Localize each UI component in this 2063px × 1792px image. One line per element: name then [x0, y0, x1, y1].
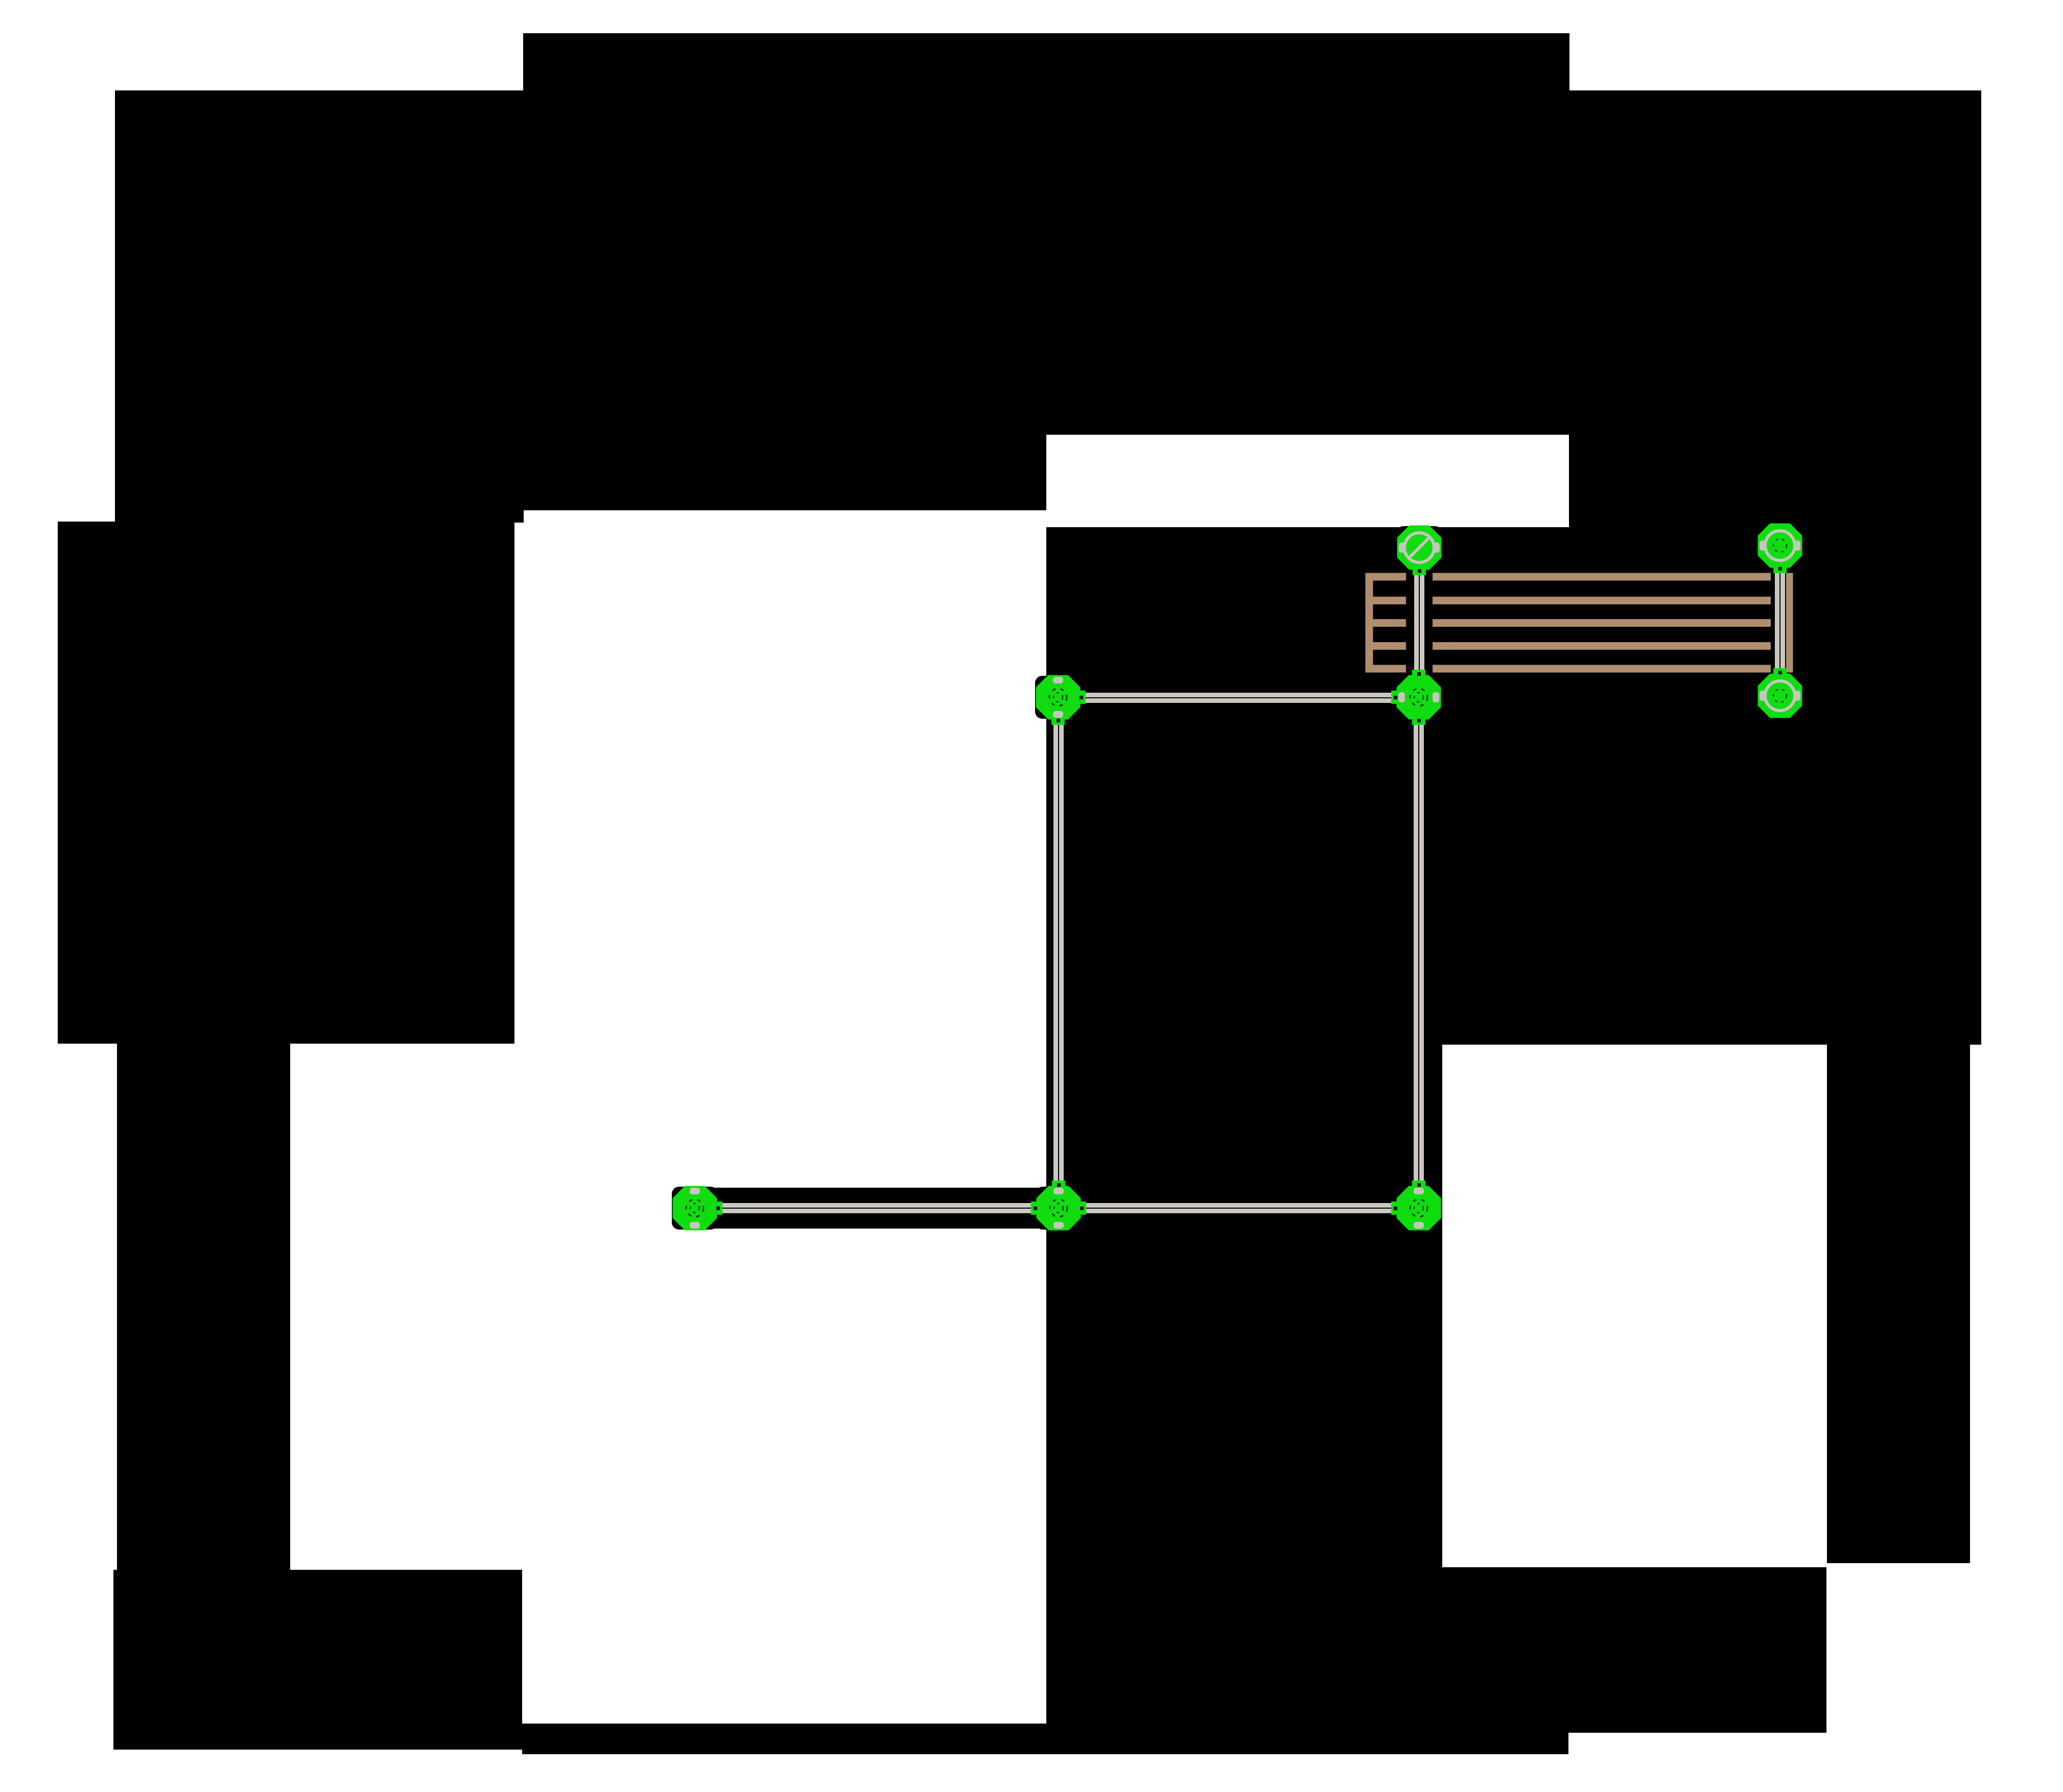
wire V1 [1053, 698, 1064, 1208]
wire V3 [1406, 548, 1433, 698]
junction box J4 [1757, 524, 1803, 573]
room block middle-right [1046, 527, 1981, 1045]
room block right column low [1827, 1045, 1970, 1563]
room block band lower-right [1569, 435, 1981, 527]
junction box J3 sealed [1396, 526, 1442, 575]
junction box J1 [1035, 676, 1086, 725]
wire V4 casing [1771, 545, 1786, 698]
room block band lower-left [115, 435, 1046, 510]
junction box J7 [1391, 1181, 1442, 1230]
junction box J8 [672, 1187, 722, 1230]
stairs [1369, 577, 1792, 669]
room block bottom band [522, 1724, 1568, 1754]
room block small strip [115, 510, 524, 523]
room block wide band [115, 90, 1981, 435]
wire H3 [1058, 693, 1419, 703]
room block left [58, 522, 514, 1044]
room block top bar [523, 33, 1569, 90]
room block below white room [1442, 1567, 1826, 1733]
room block left column [117, 1044, 290, 1570]
room block bottom-left [113, 1570, 522, 1750]
wire V2 [1414, 698, 1424, 1208]
junction box J2 [1391, 670, 1442, 725]
wire H2 [1059, 1188, 1419, 1229]
room block center-low [1046, 1045, 1442, 1754]
wire H1 [678, 1188, 1059, 1229]
wire V4 [1775, 545, 1785, 698]
junction box J6 [1031, 1181, 1086, 1230]
junction box J5 [1757, 668, 1803, 717]
